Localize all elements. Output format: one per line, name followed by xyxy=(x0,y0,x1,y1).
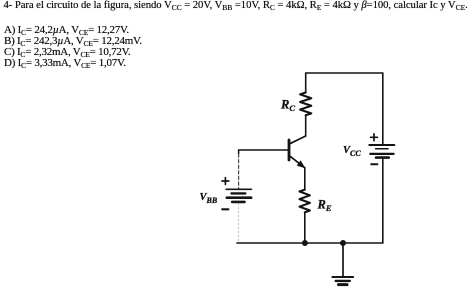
wire RC top lead xyxy=(305,73,307,93)
transistor Q1 base bar xyxy=(288,140,291,160)
wire right rail upper (VCC branch above battery) xyxy=(382,73,384,145)
resistor RC xyxy=(300,93,311,116)
wire VBB branch upper (base wire down to battery, partly faint in scan) xyxy=(238,150,240,154)
ground xyxy=(332,277,353,285)
wire right rail lower (VCC battery to bottom rail) xyxy=(382,158,384,243)
wire emitter to RE xyxy=(304,168,306,190)
wire RE bottom lead xyxy=(304,212,306,243)
svg-text:VBB: VBB xyxy=(200,192,218,205)
option C xyxy=(4,47,130,58)
svg-text:RE: RE xyxy=(317,198,332,214)
svg-text:VCC: VCC xyxy=(343,145,361,158)
battery VCC plus sign xyxy=(371,134,378,141)
battery VCC minus sign xyxy=(371,163,377,165)
svg-text:RC: RC xyxy=(280,98,295,114)
wire top rail from RC top to VCC branch xyxy=(306,72,383,74)
battery VBB plus sign xyxy=(222,178,229,185)
transistor Q1 emitter lead xyxy=(290,156,305,168)
battery VBB minus sign xyxy=(222,208,228,210)
transistor Q1 emitter arrow xyxy=(298,161,305,167)
option B xyxy=(4,36,142,47)
battery VBB xyxy=(226,189,251,202)
wire base lead xyxy=(239,149,288,151)
battery VCC xyxy=(369,145,394,158)
wire VBB branch lower (battery to bottom rail, faint in scan) xyxy=(237,204,239,243)
wire RC bottom lead to collector xyxy=(305,115,307,136)
node junction ground/bottom rail xyxy=(340,240,346,246)
node junction RE/bottom rail xyxy=(302,240,308,246)
resistor RE xyxy=(300,190,310,213)
wire bottom rail xyxy=(237,242,383,244)
option A xyxy=(4,25,129,36)
wire ground lead xyxy=(342,243,344,277)
option D xyxy=(4,58,126,69)
transistor Q1 collector lead xyxy=(290,136,306,144)
heading line xyxy=(4,0,468,11)
